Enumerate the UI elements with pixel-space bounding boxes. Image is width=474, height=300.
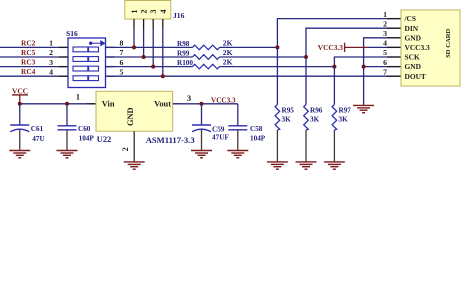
svg-text:GND: GND <box>405 33 421 42</box>
capacitor C61 <box>10 104 29 151</box>
junction J16-3/RC3 <box>151 65 155 69</box>
wire S16 pin8 to R98 <box>106 46 193 48</box>
ground symbol C59 <box>191 151 212 158</box>
wire VCC rail to U22 Vin <box>20 103 96 105</box>
junction VCC/C61 <box>18 102 22 106</box>
wire SD pin6 GND stub <box>364 66 401 68</box>
svg-text:VCC3.3: VCC3.3 <box>405 43 431 52</box>
svg-text:6: 6 <box>383 58 387 67</box>
svg-text:RC4: RC4 <box>21 67 36 76</box>
power port VCC top left <box>12 86 28 103</box>
wire U22 GND pin drop <box>133 131 135 162</box>
svg-text:SD CARD: SD CARD <box>445 28 452 57</box>
svg-text:RC2: RC2 <box>21 38 36 47</box>
capacitor C58 <box>228 104 247 151</box>
svg-text:3: 3 <box>187 94 191 103</box>
svg-text:DOUT: DOUT <box>405 72 426 81</box>
svg-text:RC5: RC5 <box>21 48 36 57</box>
svg-text:2: 2 <box>121 147 130 151</box>
svg-text:1: 1 <box>130 9 139 13</box>
svg-text:J16: J16 <box>173 11 185 20</box>
resistor R99 <box>193 55 220 60</box>
svg-text:7: 7 <box>383 67 387 76</box>
wire J16 pin4 drop <box>162 19 164 29</box>
svg-text:2: 2 <box>49 48 53 57</box>
svg-text:R95: R95 <box>282 106 295 114</box>
S16 switch element 1 <box>73 47 99 52</box>
svg-text:6: 6 <box>120 58 124 67</box>
svg-text:3K: 3K <box>310 115 320 123</box>
S16 switch element 4 <box>73 76 99 81</box>
wire S16 pin7 to R99 <box>106 56 193 58</box>
SD card body <box>401 10 460 86</box>
svg-text:RC3: RC3 <box>21 58 36 67</box>
junction R95//CS <box>275 45 279 49</box>
svg-text:5: 5 <box>120 67 124 76</box>
svg-text:R98: R98 <box>177 40 190 48</box>
capacitor C59 <box>192 104 211 151</box>
svg-text:R100: R100 <box>177 59 193 67</box>
resistor R98 <box>193 45 220 50</box>
svg-text:2K: 2K <box>223 48 233 57</box>
svg-text:ASM1117-3.3: ASM1117-3.3 <box>146 135 195 145</box>
svg-text:2K: 2K <box>223 58 233 67</box>
svg-text:GND: GND <box>405 62 421 71</box>
resistor R100 <box>193 64 220 69</box>
svg-text:C59: C59 <box>212 125 225 133</box>
svg-text:C58: C58 <box>250 125 263 133</box>
wire RC2 net left segment <box>0 46 68 48</box>
ground symbol C60 <box>57 151 78 158</box>
resistor R96 <box>304 57 309 162</box>
svg-text:Vin: Vin <box>102 99 115 108</box>
junction GND riser/pin6 <box>362 65 366 69</box>
ground symbol R97 <box>324 162 345 169</box>
junction rail/C59 <box>200 102 204 106</box>
S16 arrow indicator <box>90 41 105 46</box>
wire J16 pin2 drop <box>143 19 145 29</box>
svg-text:VCC3.3: VCC3.3 <box>318 43 344 52</box>
svg-text:4: 4 <box>383 39 387 48</box>
capacitor C60 <box>58 104 77 151</box>
svg-text:C61: C61 <box>31 125 44 133</box>
svg-text:3: 3 <box>383 29 387 38</box>
ground symbol C61 <box>9 151 30 158</box>
regulator U22 body <box>96 91 173 131</box>
svg-text:SCK: SCK <box>405 53 420 62</box>
svg-text:GND: GND <box>126 107 135 126</box>
svg-text:104P: 104P <box>79 134 95 142</box>
header J16 body <box>125 1 171 20</box>
junction R97/SCK <box>332 65 336 69</box>
svg-text:U22: U22 <box>97 135 111 144</box>
wire R100 to SCK riser <box>220 66 335 68</box>
svg-text:R96: R96 <box>310 106 323 114</box>
wire SD pin3 GND drop <box>364 38 401 106</box>
svg-text:2: 2 <box>383 19 387 28</box>
wire S16 pin5 to SD DOUT <box>106 75 402 77</box>
svg-text:R99: R99 <box>177 49 190 57</box>
wire VCC3.3 to SD pin4 <box>368 46 401 48</box>
wire RC4 net left segment <box>0 75 68 77</box>
svg-text:VCC3.3: VCC3.3 <box>211 97 236 105</box>
svg-text:104P: 104P <box>250 134 266 142</box>
ground symbol at SD card <box>353 105 374 112</box>
wire RC5 net left segment <box>0 56 68 58</box>
wire J16 pin1 drop <box>133 19 135 29</box>
svg-text:47U: 47U <box>32 135 45 143</box>
wire U22 Vout to VCC3.3 rail <box>173 103 238 105</box>
svg-text:2K: 2K <box>223 38 233 47</box>
svg-text:S16: S16 <box>66 29 78 38</box>
resistor R97 <box>332 67 337 162</box>
ground symbol C58 <box>227 151 248 158</box>
SD card pin stubs (black) <box>387 19 401 77</box>
svg-text:8: 8 <box>120 39 124 48</box>
U22 pin stubs (black) <box>87 103 182 105</box>
DIP switch S16 body <box>68 38 106 88</box>
wire J16 pin3 drop <box>152 19 154 29</box>
wire RC3 net left segment <box>0 66 68 68</box>
svg-text:Vout: Vout <box>154 99 171 108</box>
junction J16-2/RC5 <box>142 55 146 59</box>
svg-text:5: 5 <box>383 48 387 57</box>
resistor R95 <box>275 47 280 161</box>
ground symbol R95 <box>267 162 288 169</box>
svg-text:47UF: 47UF <box>212 134 229 142</box>
svg-text:1: 1 <box>76 93 80 102</box>
junction R96/DIN <box>304 55 308 59</box>
svg-text:R97: R97 <box>339 106 352 114</box>
power port VCC3.3 at SD card <box>318 43 368 52</box>
svg-text:1: 1 <box>49 39 53 48</box>
wire /CS riser and horizontal to SD pin1 <box>277 19 401 48</box>
svg-text:VCC: VCC <box>12 86 28 95</box>
svg-text:2: 2 <box>140 9 149 13</box>
ground symbol U22 <box>124 162 145 169</box>
S16 switch element 2 <box>73 57 99 62</box>
svg-text:3: 3 <box>149 9 158 13</box>
wire R99 to DIN riser <box>220 56 307 58</box>
svg-text:DIN: DIN <box>405 24 419 33</box>
svg-text:/CS: /CS <box>404 14 417 23</box>
wire DIN riser and horizontal to SD pin2 <box>306 28 401 57</box>
svg-text:C60: C60 <box>78 125 91 133</box>
S16 switch element 3 <box>73 66 99 71</box>
wire SCK riser and horizontal to SD pin5 <box>334 57 401 67</box>
wire R98 to /CS riser <box>220 46 278 48</box>
junction rail/C60 <box>65 102 69 106</box>
svg-text:3K: 3K <box>339 115 349 123</box>
svg-text:1: 1 <box>383 10 387 19</box>
wire S16 pin6 to R100 <box>106 66 193 68</box>
svg-text:3: 3 <box>49 58 53 67</box>
svg-text:3K: 3K <box>282 115 292 123</box>
S16 pin stubs (black) <box>59 47 115 76</box>
svg-text:7: 7 <box>120 48 124 57</box>
junction J16-1/RC2 <box>132 45 136 49</box>
junction J16-4/RC4 <box>161 74 165 78</box>
svg-text:4: 4 <box>49 67 53 76</box>
ground symbol R96 <box>296 162 317 169</box>
